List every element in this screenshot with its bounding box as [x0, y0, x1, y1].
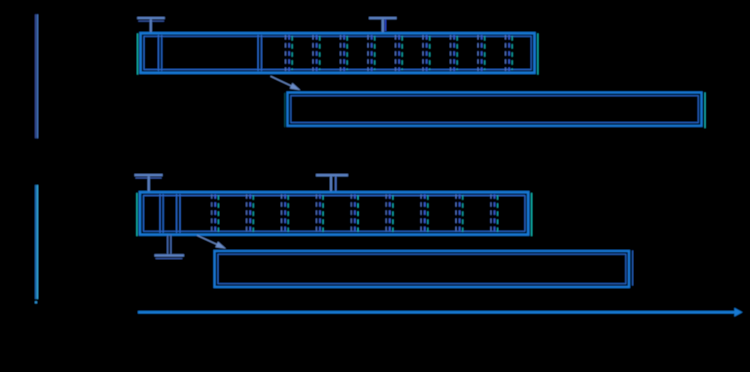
- packet row 1: solid cell divider pair B: [258, 35, 261, 71]
- packet row 1: outer frame: [141, 33, 535, 73]
- vertical axis segment (lower diagram): [35, 185, 37, 303]
- packet row 2: cyan accent line left: [136, 193, 138, 236]
- packet row 1: inner cell outline (top/bottom/ends): [144, 36, 531, 70]
- callout arrow from packet row 2 to detail box 2: [197, 235, 226, 249]
- detail box 2 (expanded slot), outer frame: [215, 251, 629, 287]
- timing marker T1 above packet row 1: [137, 17, 165, 32]
- timing marker T2 above packet row 2: [316, 174, 348, 191]
- packet row 1: dashed slot dividers: [286, 35, 513, 71]
- timing marker T2 above packet row 1: [369, 17, 397, 32]
- detail box 2: inner outline: [218, 254, 626, 284]
- time axis with arrowhead: [138, 308, 743, 317]
- packet row 2: inner cell outline (top/bottom/ends): [144, 195, 525, 232]
- detail box 1 (expanded slot), outer frame: [288, 93, 702, 126]
- vertical axis segment (upper diagram): [36, 14, 38, 138]
- packet row 1: solid cell divider pair A: [158, 35, 161, 71]
- timing marker T1 above packet row 2: [134, 174, 162, 191]
- packet row 1: cyan accent line right: [537, 34, 539, 75]
- hanging reference marker below packet row 2: [155, 235, 185, 259]
- packet row 2: solid cell divider pair B: [177, 194, 180, 233]
- packet row 2: outer frame: [140, 192, 528, 234]
- packet row 2: dashed slot dividers: [212, 194, 498, 233]
- detail box 1: teal accent line right: [704, 93, 706, 129]
- callout arrow from packet row 1 to detail box 1: [271, 76, 301, 90]
- packet row 1: cyan accent line left: [137, 34, 139, 75]
- detail box 1: faint accent line left: [284, 93, 286, 127]
- detail box 1: inner outline: [291, 96, 699, 123]
- detail box 2: accent line right: [632, 251, 634, 286]
- packet row 2: solid cell divider pair A: [160, 194, 163, 233]
- packet row 2: cyan accent line right: [531, 193, 533, 236]
